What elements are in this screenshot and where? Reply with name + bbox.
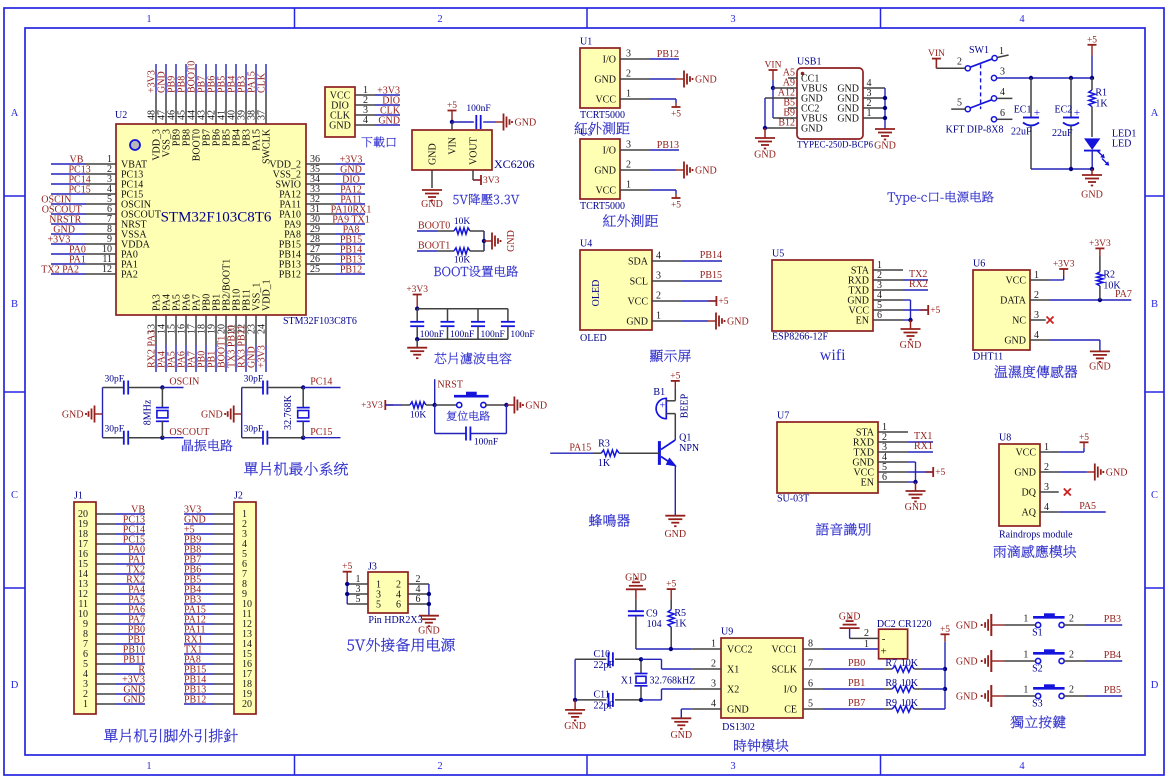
- capacitor 100nF C4: [501, 309, 515, 340]
- svg-text:STM32F103C8T6: STM32F103C8T6: [283, 316, 357, 327]
- svg-text:PB4: PB4: [1104, 650, 1121, 661]
- J3 pin 2 number (outside): [416, 574, 421, 585]
- U6 DATA wire: [1030, 299, 1131, 301]
- label 10K: [901, 678, 919, 689]
- J2 pin 2 number: [242, 519, 247, 530]
- J1 pin 4 number: [83, 669, 88, 680]
- svg-text:PB12: PB12: [340, 265, 362, 276]
- net label PA15: [247, 71, 258, 93]
- U2 pin 12 PA2 wire: [51, 273, 116, 275]
- power +5 port (U5): [920, 305, 940, 316]
- svg-text:2: 2: [711, 659, 716, 670]
- pushbutton S2: [1033, 649, 1065, 663]
- svg-text:PA2: PA2: [121, 270, 138, 281]
- U2 pin 5 OSCIN wire: [51, 203, 116, 205]
- net label +3V3: [147, 70, 158, 93]
- capacitor 100nF (reset): [466, 427, 470, 441]
- comment DS1302: [722, 722, 755, 733]
- comment STM32F103C8T6: [283, 316, 357, 327]
- J1 pin 18 number: [78, 529, 88, 540]
- U2 pin 9 number: [107, 234, 112, 245]
- ground GND (U1): [676, 71, 717, 88]
- net label RX2: [909, 279, 928, 290]
- U5 pin 2 number: [877, 270, 882, 281]
- net label RX2: [126, 575, 145, 586]
- U2 pin 3 PC14 wire: [51, 183, 116, 185]
- U2 pin 28 PB15 wire: [306, 243, 365, 245]
- svg-text:GND: GND: [625, 573, 647, 584]
- J1 pin 13 number: [78, 579, 88, 590]
- U2 pin name PA3: [152, 294, 163, 311]
- node VIN junction: [450, 120, 454, 124]
- net label PA0: [69, 245, 86, 256]
- wire cap to GND: [483, 121, 495, 123]
- net label OSCOUT: [42, 205, 82, 216]
- svg-text:1K: 1K: [1095, 99, 1108, 110]
- U2 pin 8 VSSA wire: [51, 233, 116, 235]
- U3 pin 3 I/O: [603, 146, 616, 157]
- net label PA8: [184, 655, 201, 666]
- U4 pin 3 wire: [652, 280, 722, 282]
- U2 pin name PA5: [172, 294, 183, 311]
- J3 pin 6 wire: [408, 603, 429, 605]
- U2 pin 36 VDD_2 wire: [306, 163, 365, 165]
- U2 pin name PB12: [279, 270, 301, 281]
- svg-text:VCC: VCC: [1015, 448, 1036, 459]
- svg-text:C10: C10: [594, 649, 611, 660]
- svg-text:1: 1: [1023, 650, 1028, 661]
- J1 pin 8 number: [83, 629, 88, 640]
- U1 pin 1 VCC: [595, 95, 616, 106]
- U2 pin 24 number: [257, 324, 268, 334]
- XC6206 GND pin wire: [431, 170, 433, 188]
- net label PB10: [123, 645, 145, 656]
- U2 pin 29 PA8 wire: [306, 233, 365, 235]
- SW1 pin 4 number: [1000, 87, 1005, 98]
- net label GND: [123, 695, 145, 706]
- net label PB6: [184, 565, 201, 576]
- power +5 port (U1): [671, 103, 681, 120]
- label 32.768kHZ: [650, 676, 696, 687]
- net label PC13: [123, 515, 145, 526]
- net label PB5: [1104, 685, 1121, 696]
- net label PA0: [128, 545, 145, 556]
- label 30pF: [244, 375, 264, 385]
- U5 pin name EN: [856, 316, 869, 327]
- junction: [160, 385, 164, 389]
- U4 pin 1 number: [656, 311, 661, 322]
- svg-text:+3V3: +3V3: [257, 345, 268, 368]
- SW1 pin 3 number: [1000, 67, 1005, 78]
- wire +3V3 to resistor: [385, 404, 402, 406]
- junction: [415, 337, 419, 341]
- U2 pin 7 NRST wire: [51, 223, 116, 225]
- J1 pin 12 wire: [96, 593, 145, 595]
- svg-text:+: +: [880, 646, 886, 658]
- U9 VCC1 wire: [803, 648, 879, 650]
- label 100nF: [474, 438, 498, 448]
- U2 pin 40 PB4 wire: [235, 64, 237, 124]
- svg-text:PB12: PB12: [657, 49, 679, 60]
- U2 pin 27 PB14 wire: [306, 253, 365, 255]
- junction: [943, 667, 947, 671]
- J2 pin 15 wire: [184, 653, 234, 655]
- svg-text:GND: GND: [1014, 468, 1036, 479]
- download port pin 4 number: [363, 115, 368, 126]
- U5 EN wire: [873, 319, 911, 321]
- USB1 pin designator A9: [783, 78, 795, 89]
- svg-text:VDD_1: VDD_1: [262, 279, 273, 311]
- svg-text:8MHz: 8MHz: [142, 399, 153, 425]
- USB1 GND pin 2: [837, 104, 885, 115]
- U7 pin 4 number: [882, 452, 887, 463]
- U2 pin 11 number: [102, 254, 112, 265]
- U2 pin 6 OSCOUT wire: [51, 213, 116, 215]
- filter caps top rail wire: [417, 308, 508, 310]
- U8 pin 1 number: [1044, 442, 1049, 453]
- label 100nF: [510, 330, 534, 340]
- svg-text:I/O: I/O: [603, 146, 616, 157]
- USB1 pin designator B12: [778, 118, 795, 129]
- XC6206 VOUT pin wire: [473, 170, 481, 180]
- U4 pin name SCL: [630, 277, 648, 288]
- U2 pin 33 number: [310, 184, 320, 195]
- title MCU minimum system: [244, 462, 348, 476]
- U2 pin 14 PA4 wire: [165, 315, 167, 372]
- svg-text:GND: GND: [515, 118, 537, 129]
- ground GND (S3): [956, 685, 1005, 707]
- U8 pin 2 number: [1044, 462, 1049, 473]
- U2 pin 18 PB0 wire: [205, 315, 207, 372]
- svg-text:2: 2: [626, 69, 631, 80]
- ground GND (U7): [905, 482, 927, 513]
- net label PA12: [184, 615, 206, 626]
- net label PB8: [177, 76, 188, 93]
- SW1 linkage dashed line: [980, 64, 982, 109]
- U5 pin 1 number: [877, 260, 882, 271]
- svg-text:C: C: [1151, 490, 1158, 501]
- wire S1 to PB3: [1064, 624, 1122, 626]
- J1 pin 17 wire: [96, 543, 145, 545]
- IC U9 DS1302 body: [721, 638, 803, 718]
- net label RX3 PB11: [237, 325, 248, 368]
- svg-text:2: 2: [864, 628, 869, 639]
- transistor Q1 NPN: [659, 440, 677, 467]
- svg-text:GND: GND: [329, 121, 351, 132]
- junction: [1098, 298, 1102, 302]
- junction: [883, 116, 887, 120]
- svg-text:U6: U6: [973, 259, 985, 270]
- svg-text:R8: R8: [885, 678, 897, 689]
- USB1 pin designator A12: [778, 88, 795, 99]
- svg-text:10K: 10K: [454, 256, 471, 266]
- svg-text:I/O: I/O: [603, 55, 616, 66]
- U2 pin 38 number: [247, 110, 258, 120]
- svg-text:GND: GND: [594, 75, 616, 86]
- junction: [763, 126, 767, 130]
- U2 pin 19 number: [207, 324, 218, 334]
- J2 pin 14 wire: [184, 643, 234, 645]
- svg-text:1K: 1K: [598, 458, 611, 469]
- J3 pin 3 number (outside): [356, 584, 361, 595]
- U2 pin 16 PA6 wire: [185, 315, 187, 372]
- USB1 pin B9 VBUS name: [801, 114, 828, 125]
- svg-text:2: 2: [437, 761, 442, 772]
- capacitor 30pF (bottom): [242, 431, 304, 445]
- J1 pin 8 wire: [96, 633, 145, 635]
- net label DIO: [382, 96, 400, 107]
- resistor R2 10K: [1097, 256, 1103, 300]
- connector J1 body: [74, 502, 96, 714]
- svg-text:1: 1: [83, 699, 88, 710]
- U2 pin name PB4: [232, 129, 243, 146]
- svg-text:SWCLK: SWCLK: [262, 128, 273, 164]
- U9 pin name X1: [727, 665, 739, 676]
- J1 pin 14 number: [78, 569, 88, 580]
- label 100nF: [481, 330, 505, 340]
- U4 pin 3 number: [656, 271, 661, 282]
- U6 pin name NC: [1012, 316, 1026, 327]
- IC U3 TCRT5000 body: [580, 139, 620, 199]
- net label OSCIN: [169, 377, 199, 388]
- svg-text:GND: GND: [695, 75, 717, 86]
- svg-text:22uF: 22uF: [1052, 128, 1073, 139]
- svg-text:SDA: SDA: [628, 257, 649, 268]
- U9 I/O wire: [803, 688, 884, 690]
- download port pin 3 number: [363, 105, 368, 116]
- U4 pin 2 number: [656, 291, 661, 302]
- J1 pin 6 wire: [96, 653, 145, 655]
- USB1 pin designator A5: [783, 68, 795, 79]
- net label BOOT0: [418, 221, 450, 232]
- U9 pin 8 number: [808, 639, 813, 650]
- svg-text:X1: X1: [621, 676, 633, 687]
- USB1 pin A9 VBUS name: [801, 84, 828, 95]
- J2 pin 3 number: [242, 529, 247, 540]
- capacitor 100nF C2: [441, 309, 455, 340]
- U2 pin 18 number: [197, 324, 208, 334]
- comment TYPEC-250D-BCP6: [797, 140, 874, 150]
- pushbutton (reset): [454, 392, 489, 408]
- wire emitter to GND: [674, 466, 676, 516]
- U2 pin 20 number: [217, 324, 228, 334]
- net label TX2: [909, 269, 927, 280]
- J1 pin 9 number: [83, 619, 88, 630]
- designator DC2 CR1220: [877, 619, 932, 630]
- U2 pin 45 number: [177, 110, 188, 120]
- net wire top: [162, 387, 183, 389]
- J1 pin 17 number: [78, 539, 88, 550]
- wire R9 to +5 bus: [922, 708, 945, 710]
- junction: [427, 592, 431, 596]
- svg-text:+5: +5: [670, 371, 680, 381]
- svg-text:+5: +5: [666, 580, 676, 590]
- S1 pin 1 number: [1023, 614, 1028, 625]
- U2 pin name PB9: [172, 129, 183, 146]
- ground GND (clock left): [564, 700, 586, 732]
- designator R2: [1103, 270, 1115, 281]
- label 1K: [598, 458, 611, 469]
- net label PA7: [1115, 289, 1132, 300]
- comment XC6206: [494, 157, 535, 171]
- svg-text:PB5: PB5: [1104, 685, 1121, 696]
- J3 pin 3 wire: [347, 593, 368, 595]
- ground GND (U5): [900, 320, 922, 351]
- junction: [504, 403, 508, 407]
- wire VIN to VBUS junction: [772, 80, 774, 88]
- IC U2 STM32F103C8T6 body: [116, 124, 306, 315]
- U2 pin name VSS_1: [252, 283, 263, 311]
- title Type-C power circuit: [888, 191, 994, 205]
- resistor 10K (reset): [402, 402, 435, 408]
- wire buzzer to Q1 collector: [674, 414, 676, 440]
- J3 left bus wire: [346, 584, 348, 604]
- U2 pin name BOOT0: [192, 129, 203, 161]
- J1 pin 12 number: [78, 589, 88, 600]
- svg-text:VCC2: VCC2: [727, 645, 753, 656]
- U2 pin 41 PB5 wire: [225, 64, 227, 124]
- net label +5: [184, 525, 195, 536]
- U2 pin 47 number: [157, 110, 168, 120]
- J2 pin 12 wire: [184, 623, 234, 625]
- J2 pin 5 number: [242, 549, 247, 560]
- U2 pin name PB15: [279, 240, 301, 251]
- svg-text:6: 6: [1000, 108, 1005, 119]
- capacitor 100nF C1: [410, 309, 424, 340]
- U2 pin name OSCIN: [121, 200, 151, 211]
- ground GND (buzzer): [664, 516, 686, 540]
- U2 pin name PA7: [192, 294, 203, 311]
- svg-text:R2: R2: [1103, 270, 1115, 281]
- label 22pF: [594, 660, 615, 671]
- USB GND bus wire: [884, 88, 886, 129]
- J1 pin 20 number: [78, 509, 88, 520]
- junction: [669, 647, 673, 651]
- J1 pin 3 wire: [96, 683, 145, 685]
- net label PA11: [340, 195, 362, 206]
- ground GND (U8): [1087, 464, 1128, 481]
- svg-text:GND: GND: [956, 657, 978, 668]
- net label PB0: [128, 625, 145, 636]
- ground GND (J3): [418, 616, 440, 637]
- U2 pin 33 PA12 wire: [306, 193, 365, 195]
- label 10K: [1103, 281, 1121, 292]
- svg-text:100nF: 100nF: [420, 330, 444, 340]
- net label OSCIN: [41, 195, 71, 206]
- svg-text:PB12: PB12: [184, 695, 206, 706]
- U2 pin 44 BOOT0 wire: [195, 64, 197, 124]
- svg-text:2: 2: [1069, 650, 1074, 661]
- svg-text:SW1: SW1: [969, 45, 989, 56]
- U2 pin 40 number: [227, 110, 238, 120]
- svg-text:1: 1: [711, 639, 716, 650]
- U1 VCC wire: [620, 99, 676, 103]
- svg-text:+5: +5: [671, 201, 681, 211]
- USB1 pin B9 wire: [773, 117, 797, 119]
- junction: [427, 602, 431, 606]
- U8 AQ wire: [1040, 511, 1106, 513]
- U2 pin 21 PB10 wire: [235, 315, 237, 372]
- svg-text:5: 5: [957, 98, 962, 109]
- svg-text:J3: J3: [368, 562, 377, 573]
- junction: [943, 687, 947, 691]
- svg-text:25: 25: [310, 264, 320, 275]
- SW1 pin 5 number: [957, 98, 962, 109]
- U2 pin name PA2: [121, 270, 138, 281]
- svg-text:+5: +5: [935, 468, 945, 478]
- U2 pin 27 number: [310, 244, 320, 255]
- svg-text:100nF: 100nF: [474, 438, 498, 448]
- svg-text:C9: C9: [646, 609, 658, 620]
- IC XC6206 body: [412, 130, 492, 170]
- svg-text:NPN: NPN: [679, 443, 699, 454]
- U2 pin name PA0: [121, 250, 138, 261]
- ground GND (U3): [676, 162, 717, 179]
- U2 pin 46 PB9 wire: [175, 64, 177, 124]
- designator EC1: [1014, 105, 1032, 116]
- net label PB13: [184, 685, 206, 696]
- J2 pin 1 wire: [184, 513, 234, 515]
- USB1 pin B12 GND name: [801, 124, 823, 135]
- U9 GND wire: [681, 709, 721, 718]
- U6 pin name GND: [1004, 336, 1026, 347]
- DC2 pin 2 number: [864, 628, 869, 639]
- U2 pin 39 PB3 wire: [245, 64, 247, 124]
- power +5 port (J3): [342, 562, 352, 584]
- U2 pin 20 PB2/BOOT1 wire: [225, 315, 227, 372]
- U1 pin 2 number: [626, 69, 631, 80]
- svg-text:GND: GND: [670, 730, 692, 741]
- junction: [433, 403, 437, 407]
- net label CLK: [257, 72, 268, 93]
- U2 pin 46 number: [167, 110, 178, 120]
- svg-text:2: 2: [1069, 685, 1074, 696]
- designator S1: [1032, 628, 1043, 639]
- designator C11: [594, 690, 610, 701]
- svg-text:PC14: PC14: [310, 377, 332, 388]
- J1 pin 1 wire: [96, 703, 145, 705]
- svg-text:NRST: NRST: [437, 380, 463, 391]
- U7 pin 5 number: [882, 462, 887, 473]
- U2 pin 26 number: [310, 254, 320, 265]
- J1 pin 2 number: [83, 689, 88, 700]
- U1 pin 3 number: [626, 49, 631, 60]
- svg-text:GND: GND: [564, 721, 586, 732]
- J1 pin 19 wire: [96, 523, 145, 525]
- U7 pin name EN: [861, 478, 874, 489]
- U7 pin 2 number: [882, 432, 887, 443]
- net label PA1: [128, 555, 145, 566]
- J2 pin 7 wire: [184, 573, 234, 575]
- J1 pin 6 number: [83, 649, 88, 660]
- U6 VCC wire: [1030, 276, 1064, 280]
- designator U4: [580, 239, 592, 250]
- svg-text:RX2: RX2: [909, 279, 928, 290]
- svg-text:PB7: PB7: [848, 698, 865, 709]
- net label +3V3: [340, 155, 363, 166]
- SW1 pin 2 number: [957, 57, 962, 68]
- svg-text:1: 1: [1023, 614, 1028, 625]
- download port pin 2 number: [363, 95, 368, 106]
- U2 pin name VSS_2: [273, 170, 301, 181]
- comment LED: [1112, 139, 1131, 150]
- U3 pin 1 VCC: [595, 186, 616, 197]
- left rail wire: [102, 388, 104, 438]
- ground GND (U9): [670, 718, 692, 741]
- U2 pin name PB0: [202, 294, 213, 311]
- U5 TXD wire: [873, 289, 928, 291]
- J3 pin 4 name: [396, 590, 401, 601]
